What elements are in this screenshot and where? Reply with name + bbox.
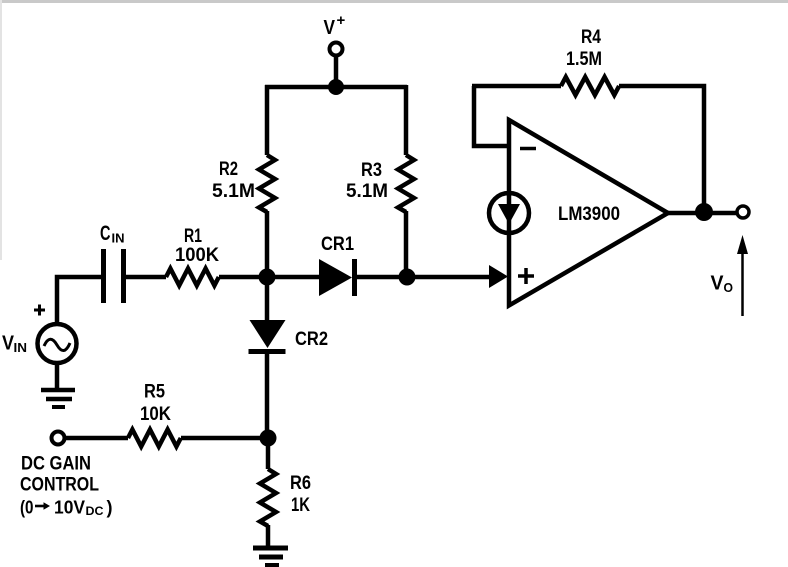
op-amp minus sign: [520, 147, 536, 151]
arrowhead into plus input: [489, 265, 508, 288]
wire: R4 rail left: [472, 84, 561, 89]
wire: R6 to ground: [266, 525, 271, 546]
svg-text:R6: R6: [290, 473, 311, 494]
VO arrow: [737, 235, 748, 316]
ground (VIN): [41, 390, 75, 407]
junction node B: [399, 269, 416, 286]
svg-text:V: V: [711, 273, 725, 295]
wire: feedback left drop to minus input: [474, 86, 507, 146]
resistor R1: [166, 269, 219, 286]
V+ label: [324, 12, 346, 39]
wire: R5 to node C: [181, 436, 268, 441]
wire: R4 rail right: [619, 86, 704, 212]
wire: op-amp output to terminal: [668, 211, 737, 216]
resistor R4: [561, 77, 619, 95]
svg-text:C: C: [100, 222, 111, 245]
op-amp plus sign: [518, 268, 534, 284]
wire: R3 branch top: [404, 85, 409, 155]
svg-text:): ): [107, 498, 113, 518]
svg-text:R4: R4: [581, 27, 601, 48]
resistor R2: [259, 155, 275, 212]
svg-text:R3: R3: [361, 160, 382, 181]
junction node A: [259, 269, 276, 286]
svg-text:1.5M: 1.5M: [566, 49, 602, 70]
wire: VIN to ground: [55, 364, 60, 389]
svg-text:IN: IN: [112, 231, 125, 246]
junction: V+ rail: [328, 79, 344, 95]
resistor R5: [128, 430, 181, 447]
junction node C: [260, 430, 277, 447]
svg-text:DC GAIN: DC GAIN: [21, 454, 91, 475]
svg-text:R2: R2: [219, 159, 238, 180]
svg-text:LM3900: LM3900: [558, 204, 620, 225]
resistor R3: [398, 155, 414, 212]
DC GAIN CONTROL terminal: [52, 432, 65, 445]
svg-text:1K: 1K: [291, 495, 310, 516]
svg-text:R5: R5: [144, 382, 165, 403]
wire: R2 branch top: [265, 85, 270, 155]
VO label: [711, 273, 734, 296]
VIN plus sign: [34, 305, 45, 316]
current source inside op-amp: [489, 193, 529, 233]
svg-text:5.1M: 5.1M: [346, 181, 388, 202]
svg-text:CR2: CR2: [295, 329, 328, 350]
V+ supply terminal: [330, 43, 343, 85]
svg-text:10V: 10V: [54, 498, 85, 518]
svg-text:(0: (0: [20, 498, 34, 518]
wire: R1 to node A: [219, 275, 267, 280]
wire: CIN to R1: [126, 275, 166, 280]
output terminal VO: [737, 206, 749, 218]
junction output node: [695, 203, 713, 221]
wire: CR1 to node B: [357, 275, 406, 280]
wire: node B to op-amp plus input: [407, 275, 490, 280]
capacitor CIN: [101, 249, 126, 303]
wire: CR2 to node C: [265, 353, 270, 438]
wire: node A to CR1: [267, 275, 319, 280]
svg-text:IN: IN: [14, 340, 28, 355]
svg-text:5.1M: 5.1M: [212, 181, 255, 202]
diode CR1: [319, 259, 357, 296]
svg-text:10K: 10K: [140, 404, 171, 425]
svg-text:100K: 100K: [175, 245, 219, 266]
wire: terminal to R5: [65, 436, 128, 441]
source VIN: [38, 324, 77, 363]
svg-text:CONTROL: CONTROL: [20, 475, 99, 496]
svg-text:R1: R1: [184, 226, 202, 247]
ground (R6): [253, 548, 288, 565]
wire: node C to R6: [266, 438, 271, 469]
svg-text:DC: DC: [86, 506, 104, 518]
svg-text:V: V: [324, 17, 336, 39]
VIN label: [2, 333, 27, 356]
svg-text:O: O: [724, 280, 734, 295]
wire: V+ rail: [265, 85, 407, 90]
diode CR2: [249, 277, 286, 352]
CIN label: [100, 222, 125, 246]
wire: VIN corner to CIN: [57, 277, 101, 323]
DC GAIN label line 3: [20, 498, 113, 519]
svg-text:CR1: CR1: [321, 234, 354, 255]
resistor R6: [260, 469, 276, 526]
wire: R2 to node A: [265, 211, 270, 277]
wire: R3 to node B: [404, 211, 409, 277]
svg-text:+: +: [337, 12, 346, 29]
op-amp U1 LM3900: [509, 120, 668, 306]
